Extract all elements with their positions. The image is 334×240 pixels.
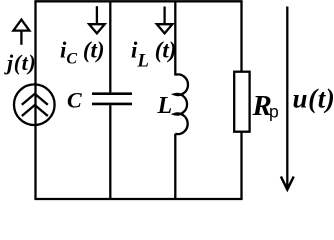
wire left branch	[34, 1, 36, 199]
wire bottom	[34, 198, 242, 200]
svg-text:iC (t): iC (t)	[60, 38, 105, 68]
svg-text:C: C	[67, 88, 82, 113]
capacitor C	[92, 92, 132, 95]
arrow u(t)	[281, 7, 294, 190]
svg-text:L: L	[157, 93, 173, 119]
arrow iC	[89, 6, 105, 33]
wire inductor branch bottom	[174, 134, 176, 199]
resistor Rp	[234, 72, 249, 132]
wire inductor branch top	[174, 1, 176, 75]
svg-text:iL (t): iL (t)	[131, 38, 176, 72]
wire capacitor branch top	[109, 1, 111, 92]
current source J1	[14, 84, 55, 125]
arrow j(t)	[13, 20, 29, 45]
arrow iL	[157, 7, 173, 34]
wire resistor branch top	[240, 1, 242, 71]
wire resistor branch bottom	[240, 132, 242, 199]
inductor L	[174, 74, 188, 134]
wire capacitor branch bottom	[109, 105, 111, 199]
svg-text:u(t): u(t)	[293, 84, 334, 114]
svg-text:p: p	[269, 102, 279, 122]
wire top	[34, 0, 242, 2]
svg-text:j(t): j(t)	[4, 50, 36, 75]
